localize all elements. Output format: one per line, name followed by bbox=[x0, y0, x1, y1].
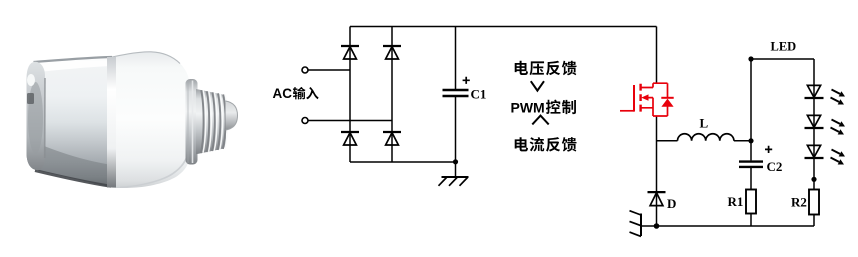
label PWM控制 bbox=[511, 100, 576, 116]
wire to inductor bbox=[657, 140, 678, 142]
svg-text:PWM: PWM bbox=[511, 100, 545, 116]
chevron down bbox=[531, 81, 544, 90]
AC input terminal bottom bbox=[302, 118, 308, 124]
svg-text:D: D bbox=[667, 196, 676, 211]
wire node up to LED rail bbox=[750, 59, 752, 141]
LED D1 bbox=[805, 85, 824, 98]
wire MOSFET source down bbox=[656, 116, 658, 226]
LED D2 light arrows bbox=[831, 120, 846, 135]
LED D1 light arrows bbox=[831, 90, 846, 105]
wire top rail bbox=[350, 26, 657, 28]
wire AC live bbox=[308, 69, 350, 71]
svg-text:AC: AC bbox=[273, 86, 293, 101]
LED bulb photo bbox=[27, 52, 238, 188]
diode bridge upper-left bbox=[341, 46, 359, 59]
MOSFET Q1 (red, with body diode) bbox=[620, 83, 674, 116]
svg-text:C1: C1 bbox=[471, 87, 487, 102]
wire bridge right leg bbox=[391, 27, 393, 163]
LED D3 light arrows bbox=[831, 150, 846, 165]
wire C2 to R1 bbox=[750, 168, 752, 190]
LED D3 bbox=[805, 145, 824, 158]
diode bridge upper-right bbox=[383, 46, 401, 59]
label AC输入 bbox=[273, 86, 319, 101]
capacitor C1 bbox=[443, 77, 487, 102]
ground (input side chassis) bbox=[439, 177, 469, 186]
diode bridge lower-left bbox=[341, 132, 359, 145]
svg-text:R2: R2 bbox=[791, 195, 807, 210]
label 电流反馈 (current feedback) bbox=[515, 137, 577, 152]
svg-text:R1: R1 bbox=[728, 194, 744, 209]
node after inductor bbox=[748, 138, 753, 143]
capacitor C2 bbox=[739, 141, 782, 174]
wire C1 branch bbox=[455, 27, 457, 90]
wire MOSFET drain from top rail bbox=[656, 27, 658, 84]
svg-text:LED: LED bbox=[771, 40, 797, 54]
wire bottom input rail bbox=[350, 161, 456, 163]
wire bottom rail bbox=[657, 225, 815, 227]
label 电压反馈 (voltage feedback) bbox=[515, 61, 577, 76]
node LED string to R2 bbox=[811, 177, 816, 182]
diode bridge lower-right bbox=[383, 132, 401, 145]
wire LED top rail bbox=[751, 58, 814, 60]
wire R1 to bottom rail bbox=[750, 214, 752, 227]
wire R2 to bottom rail bbox=[813, 215, 815, 227]
node output ground junction bbox=[654, 223, 660, 229]
wire bridge left leg bbox=[349, 27, 351, 163]
inductor L bbox=[678, 116, 734, 141]
AC input terminal top bbox=[302, 67, 308, 73]
resistor R1 bbox=[728, 190, 757, 214]
svg-text:L: L bbox=[700, 116, 709, 131]
wire LED string bbox=[813, 59, 815, 190]
node input ground junction bbox=[453, 159, 458, 164]
node LED rail left bbox=[748, 56, 753, 61]
wire inductor to node bbox=[734, 140, 751, 142]
diode D (freewheeling) bbox=[648, 192, 677, 211]
ground (output side chassis, rotated) bbox=[630, 211, 657, 237]
chevron up bbox=[532, 116, 548, 125]
resistor R2 bbox=[791, 190, 819, 215]
wire AC neutral bbox=[308, 120, 392, 122]
svg-text:C2: C2 bbox=[767, 159, 783, 174]
LED D2 bbox=[805, 115, 824, 128]
